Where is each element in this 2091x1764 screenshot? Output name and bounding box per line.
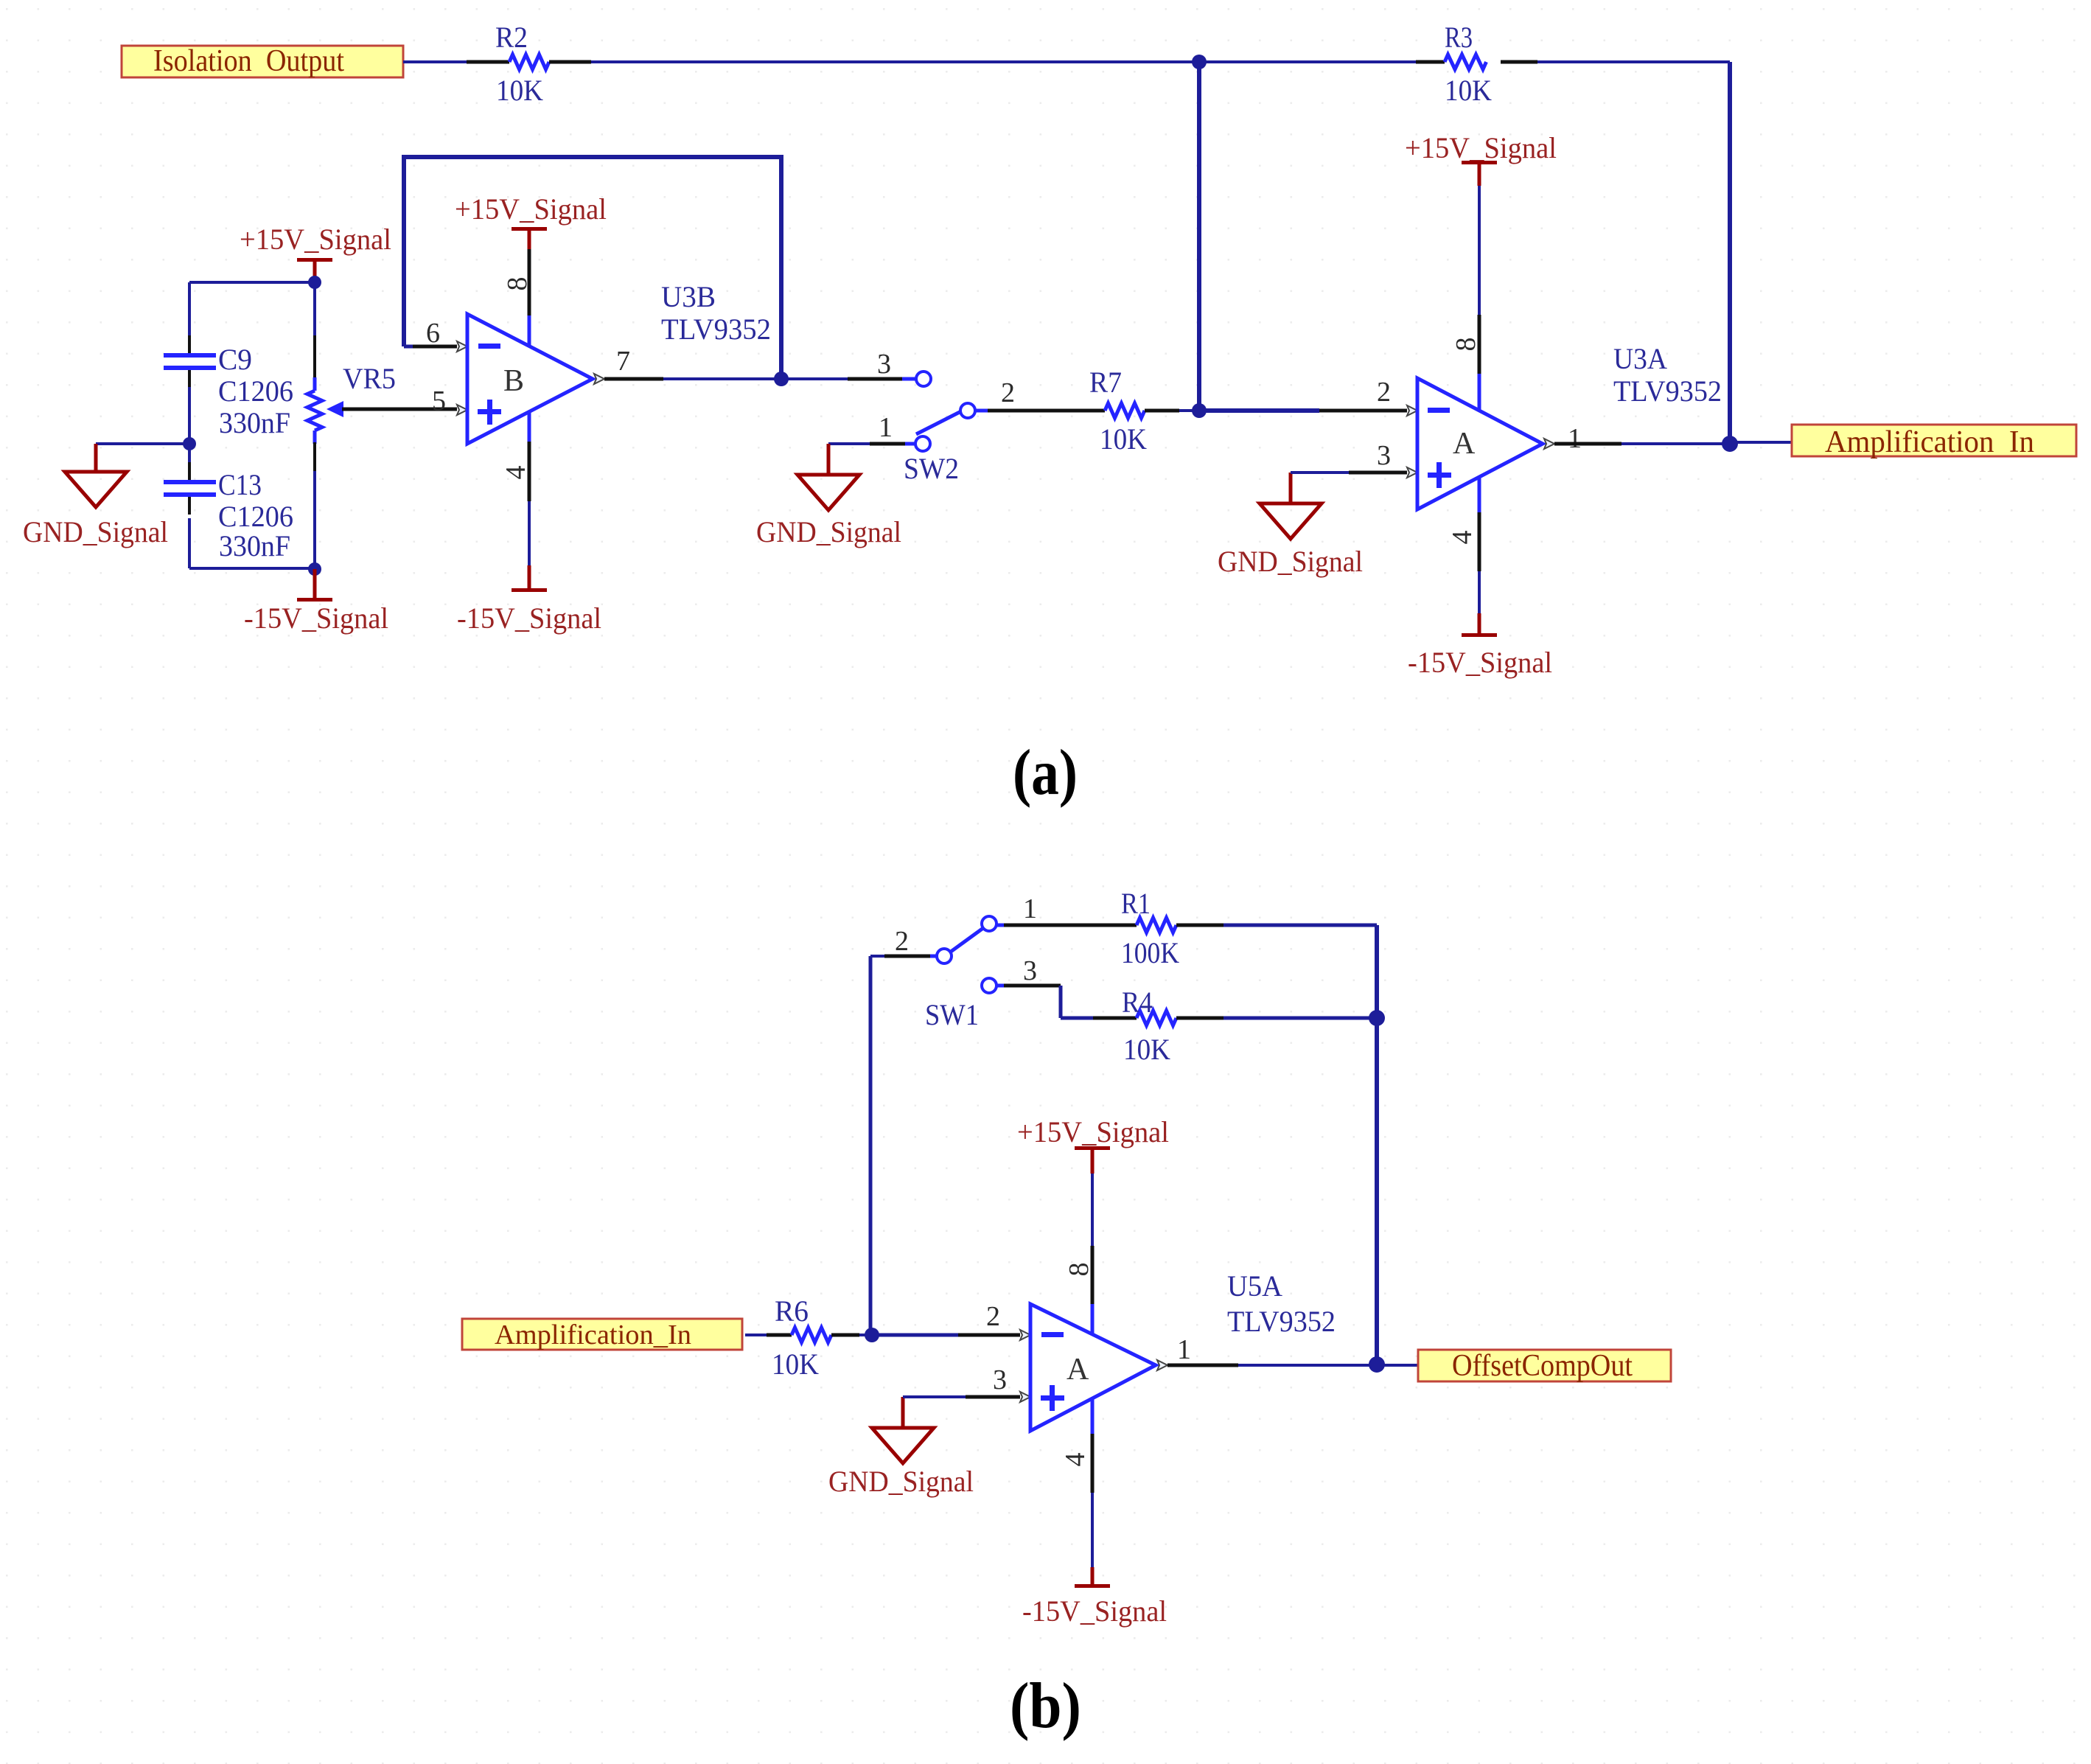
svg-text:C1206: C1206 <box>218 374 293 408</box>
svg-text:2: 2 <box>1377 377 1391 408</box>
node junction U3B output <box>774 372 789 386</box>
svg-text:U3A: U3A <box>1613 342 1667 375</box>
svg-text:10K: 10K <box>1123 1033 1170 1066</box>
svg-text:C9: C9 <box>218 343 252 376</box>
svg-text:B: B <box>503 364 524 398</box>
svg-text:10K: 10K <box>496 74 543 107</box>
svg-text:C13: C13 <box>218 468 262 501</box>
svg-text:100K: 100K <box>1121 936 1179 969</box>
svg-text:3: 3 <box>993 1364 1007 1395</box>
pin 6 arrow and label <box>426 318 467 352</box>
power +15V_Signal above U5A <box>1017 1115 1169 1174</box>
svg-text:R3: R3 <box>1445 21 1473 54</box>
svg-text:Amplification In: Amplification In <box>1825 425 2034 459</box>
power -15V_Signal below U3A <box>1408 613 1552 679</box>
svg-text:+15V_Signal: +15V_Signal <box>1405 131 1557 164</box>
svg-text:A: A <box>1453 427 1476 461</box>
U3A output pin 1 wire <box>1544 423 1730 454</box>
svg-text:6: 6 <box>426 318 440 349</box>
pin 2 arrow and label U5A <box>986 1301 1030 1340</box>
wire R4 to right column node <box>1176 1017 1377 1020</box>
svg-text:4: 4 <box>500 466 531 480</box>
power +15V_Signal above VR5 <box>240 223 391 282</box>
wire from R2 to junction and R3 <box>549 60 1445 64</box>
capacitor C13 C1206 330nF <box>164 468 293 562</box>
wire right feedback column down to output <box>1728 62 1732 444</box>
node junction +15V to VR5 top <box>308 276 321 289</box>
svg-text:TLV9352: TLV9352 <box>1227 1305 1336 1338</box>
pin 2 arrow and label U3A <box>1377 377 1417 416</box>
wire SW1 pin2 to left column <box>870 955 937 958</box>
wire R6 to node <box>831 1334 872 1337</box>
wire left capacitor branch vertical <box>188 282 191 568</box>
wire label to R6 <box>745 1334 792 1336</box>
capacitor C9 C1206 330nF <box>164 343 293 439</box>
svg-text:2: 2 <box>986 1301 1000 1332</box>
resistor R7 10K <box>1089 366 1147 456</box>
svg-text:R1: R1 <box>1121 887 1151 920</box>
svg-text:OffsetCompOut: OffsetCompOut <box>1452 1349 1633 1383</box>
wire top of capacitor branch <box>189 281 315 284</box>
wire node to U3A pin2 <box>1199 408 1407 413</box>
svg-text:GND_Signal: GND_Signal <box>1218 545 1363 578</box>
wire middle column down to R7 node <box>1197 62 1201 411</box>
svg-text:1: 1 <box>1568 423 1582 454</box>
svg-text:Amplification_In: Amplification_In <box>495 1319 691 1350</box>
svg-text:GND_Signal: GND_Signal <box>756 515 901 548</box>
wire ground to U3A pin3 <box>1291 471 1407 474</box>
svg-text:-15V_Signal: -15V_Signal <box>244 602 388 635</box>
svg-text:(a): (a) <box>1013 737 1078 809</box>
svg-text:10K: 10K <box>1445 74 1492 107</box>
svg-text:-15V_Signal: -15V_Signal <box>1408 646 1552 679</box>
power +15V_Signal above U3B <box>455 192 607 249</box>
node junction R7 and U3A pin2 <box>1192 403 1207 418</box>
svg-text:3: 3 <box>1377 440 1391 471</box>
switch SW1 <box>895 893 1037 1031</box>
net label Amplification_In (b) <box>462 1319 742 1350</box>
switch SW2 <box>877 349 1015 485</box>
wire SW1 pin1 to R1 <box>996 924 1137 927</box>
node junction U3A output feedback <box>1722 436 1738 452</box>
wire SW2 pin2 to R7 <box>975 409 1105 413</box>
wire SW2 pin1 to ground <box>828 442 915 446</box>
wire ground to U5A pin3 <box>903 1395 1020 1398</box>
svg-text:+15V_Signal: +15V_Signal <box>455 192 607 226</box>
ground GND_Signal at U3A pin3 <box>1218 473 1363 578</box>
power +15V_Signal above U3A <box>1405 131 1557 186</box>
pin 8 lead U5A <box>1064 1174 1095 1336</box>
svg-text:SW1: SW1 <box>925 998 979 1031</box>
resistor R4 10K <box>1122 986 1176 1066</box>
svg-text:+15V_Signal: +15V_Signal <box>1017 1115 1169 1148</box>
svg-text:U3B: U3B <box>661 280 716 313</box>
svg-text:8: 8 <box>1064 1263 1095 1277</box>
svg-text:VR5: VR5 <box>343 362 396 395</box>
node junction top of feedback column <box>1192 55 1207 69</box>
svg-text:330nF: 330nF <box>219 406 290 439</box>
svg-text:C1206: C1206 <box>218 500 293 533</box>
pin 4 lead U3B <box>500 412 531 565</box>
svg-text:2: 2 <box>895 926 909 957</box>
wire bottom of capacitor branch <box>189 567 315 570</box>
svg-text:10K: 10K <box>772 1348 819 1381</box>
pin 5 arrow and label <box>432 386 467 416</box>
net label OffsetCompOut <box>1418 1349 1671 1383</box>
svg-text:330nF: 330nF <box>219 529 290 562</box>
resistor R6 10K <box>772 1294 831 1381</box>
svg-text:R6: R6 <box>775 1294 809 1328</box>
node junction between C9 and C13 <box>183 437 196 450</box>
svg-text:SW2: SW2 <box>904 452 959 485</box>
ground GND_Signal left <box>23 444 168 548</box>
svg-text:+15V_Signal: +15V_Signal <box>240 223 391 256</box>
pin 4 lead U3A <box>1447 477 1479 613</box>
svg-text:A: A <box>1067 1353 1089 1387</box>
pin 3 arrow and label U3A <box>1377 440 1417 478</box>
svg-text:-15V_Signal: -15V_Signal <box>457 602 601 635</box>
wire left column down to R6 node <box>869 956 873 1335</box>
svg-text:8: 8 <box>502 277 533 291</box>
svg-text:U5A: U5A <box>1227 1269 1282 1303</box>
svg-text:R7: R7 <box>1089 366 1122 399</box>
svg-text:GND_Signal: GND_Signal <box>828 1465 974 1498</box>
svg-text:-15V_Signal: -15V_Signal <box>1022 1594 1167 1628</box>
power -15V_Signal below U5A <box>1022 1567 1167 1628</box>
resistor R3 10K <box>1445 21 1492 107</box>
pin 8 lead U3B <box>502 249 533 346</box>
svg-text:5: 5 <box>432 386 446 416</box>
U5A output pin 1 wire <box>1157 1334 1377 1370</box>
svg-text:1: 1 <box>1177 1334 1191 1365</box>
svg-text:1: 1 <box>879 412 893 443</box>
svg-text:GND_Signal: GND_Signal <box>23 515 168 548</box>
node junction R4 right column <box>1369 1010 1385 1026</box>
node junction U5A output <box>1369 1356 1385 1373</box>
svg-text:(b): (b) <box>1010 1670 1081 1742</box>
power -15V_Signal below VR5 <box>244 569 388 635</box>
net label Amplification_In (a) <box>1792 425 2076 459</box>
svg-text:Isolation Output: Isolation Output <box>153 44 344 78</box>
svg-text:TLV9352: TLV9352 <box>661 313 771 346</box>
power -15V_Signal below U3B <box>457 565 601 635</box>
svg-text:4: 4 <box>1447 531 1478 545</box>
potentiometer VR5 <box>307 282 396 568</box>
pin 3 arrow and label U5A <box>993 1364 1030 1402</box>
resistor R2 10K <box>495 21 549 107</box>
wire from R3 to right column <box>1501 60 1730 64</box>
wire U3B output to SW2 pin3 <box>781 377 915 380</box>
wire right column of part b <box>1375 925 1379 1365</box>
svg-text:1: 1 <box>1023 893 1037 924</box>
svg-text:10K: 10K <box>1100 422 1147 456</box>
op-amp U3B TLV9352 <box>467 280 771 444</box>
wire feedback loop U3B output to pin6 <box>404 157 781 379</box>
wire from capacitor midpoint to ground <box>96 442 189 445</box>
pin 4 lead U5A <box>1060 1398 1092 1567</box>
op-amp U3A TLV9352 <box>1417 342 1722 509</box>
wire R7 to node <box>1145 409 1199 413</box>
wire output junction to Amplification label <box>1730 441 1792 444</box>
svg-text:4: 4 <box>1060 1453 1091 1467</box>
node junction VR5 bottom <box>308 562 321 576</box>
U3B output pin 7 wire <box>594 346 781 384</box>
svg-text:3: 3 <box>1023 955 1037 986</box>
resistor R1 100K <box>1121 887 1179 969</box>
node junction R6 and U5A pin2 <box>865 1328 879 1342</box>
wire SW1 pin3 to R4 <box>996 986 1137 1018</box>
wire node to U5A pin2 <box>872 1334 1020 1337</box>
svg-text:8: 8 <box>1451 338 1481 352</box>
svg-text:R4: R4 <box>1122 986 1153 1019</box>
pin 8 lead U3A <box>1451 186 1481 411</box>
ground GND_Signal at SW2 <box>756 444 901 548</box>
svg-text:7: 7 <box>616 346 630 377</box>
wire R1 to right column <box>1176 924 1377 927</box>
svg-text:R2: R2 <box>495 21 528 54</box>
net label Isolation_Output <box>122 44 403 78</box>
svg-text:TLV9352: TLV9352 <box>1613 374 1722 408</box>
wire top net from Isolation_Output to R2 <box>403 60 509 63</box>
op-amp U5A TLV9352 <box>1030 1269 1336 1431</box>
svg-text:3: 3 <box>877 349 891 380</box>
svg-text:2: 2 <box>1001 377 1015 408</box>
ground GND_Signal at U5A pin3 <box>828 1397 974 1498</box>
wire VR5 wiper to U3B pin5 <box>342 408 457 411</box>
wire output junction to OffsetCompOut label <box>1377 1364 1418 1367</box>
